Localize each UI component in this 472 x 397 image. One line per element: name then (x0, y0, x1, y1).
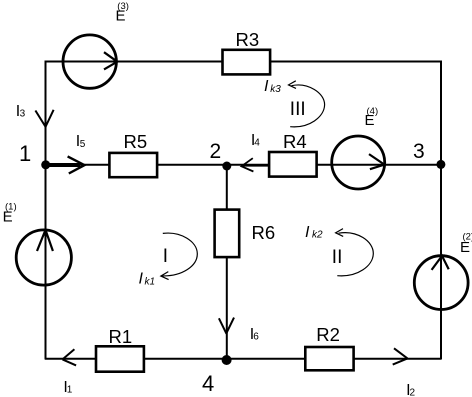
label E2 (460, 231, 472, 255)
node 2 (210, 140, 232, 171)
wire middle vertical: node 2 to node 4 (226, 165, 228, 359)
svg-text:4: 4 (202, 371, 214, 396)
loop arrow II (mesh 2) (336, 229, 374, 276)
label I5 (76, 133, 86, 150)
wire top: node corner (45,61) to (441,61) (45, 61, 441, 63)
label I4 (251, 132, 260, 149)
current arrow I1 (left, on bottom wire) (63, 349, 77, 365)
svg-text:k3: k3 (270, 84, 281, 95)
node 1 (19, 141, 50, 169)
loop arrow I (mesh 1) (161, 233, 198, 279)
svg-text:2: 2 (410, 388, 416, 397)
resistor R2 (305, 324, 353, 370)
wire bottom: (45,359) to (441,359) (45, 358, 441, 360)
resistor R1 (96, 326, 144, 372)
current arrow I2 (right, on bottom wire) (393, 348, 408, 364)
svg-text:R4: R4 (283, 131, 307, 152)
wire left: x=45 from top corner to bottom corner (45, 61, 47, 360)
label E3 (116, 1, 129, 24)
wire middle horizontal: node 1 to node 3 (45, 164, 441, 166)
svg-text:R5: R5 (124, 131, 148, 152)
EMF source E3 circle (63, 35, 117, 88)
svg-text:1: 1 (19, 141, 31, 166)
current arrow I3 (down, on left wire) (35, 110, 53, 128)
label I1 (63, 379, 72, 396)
svg-text:R3: R3 (236, 29, 260, 50)
svg-text:I: I (264, 78, 269, 95)
EMF source E1 circle (16, 230, 71, 285)
EMF source E2 circle (414, 256, 468, 310)
wire right: x=441 from top corner to bottom corner (440, 61, 442, 360)
svg-text:R6: R6 (252, 222, 276, 243)
label E4 (365, 106, 379, 129)
svg-text:III: III (290, 99, 306, 120)
current arrow I4 (left, toward node 2) (242, 158, 270, 171)
resistor R6 (215, 210, 276, 258)
svg-text:5: 5 (80, 139, 86, 150)
EMF source E4 circle (332, 136, 385, 189)
svg-text:(1): (1) (5, 202, 17, 213)
svg-text:(4): (4) (367, 106, 379, 117)
resistor R3 (223, 29, 271, 74)
svg-text:6: 6 (253, 332, 259, 343)
svg-text:I: I (163, 246, 168, 267)
node 3 (413, 140, 445, 169)
svg-text:(3): (3) (117, 1, 129, 12)
svg-text:R1: R1 (109, 326, 133, 347)
svg-text:k2: k2 (312, 230, 323, 241)
label E1 (3, 202, 17, 226)
label loop I (163, 246, 168, 267)
resistor R5 (109, 131, 157, 177)
svg-text:I: I (305, 224, 310, 241)
label Ik3 (264, 78, 281, 95)
svg-text:I: I (139, 271, 144, 288)
svg-text:k1: k1 (145, 277, 156, 288)
loop arrow III (mesh 3) (289, 81, 325, 127)
svg-text:3: 3 (413, 140, 425, 163)
node 4 (202, 355, 232, 396)
label I6 (250, 326, 259, 343)
svg-text:II: II (332, 247, 343, 268)
resistor R4 (269, 131, 317, 177)
current arrow I5 (thick, right of node 1) (46, 156, 85, 173)
label I3 (16, 103, 26, 120)
label Ik2 (305, 224, 323, 241)
label Ik1 (139, 271, 156, 288)
current arrow I6 (down, above node 4) (219, 318, 234, 334)
label loop II (332, 247, 343, 268)
svg-text:4: 4 (254, 138, 260, 149)
svg-text:R2: R2 (316, 324, 340, 345)
label loop III (290, 99, 306, 120)
label I2 (406, 382, 415, 397)
svg-text:3: 3 (20, 109, 26, 120)
svg-text:1: 1 (67, 385, 73, 396)
svg-text:(2): (2) (463, 231, 472, 242)
svg-text:2: 2 (210, 140, 222, 163)
